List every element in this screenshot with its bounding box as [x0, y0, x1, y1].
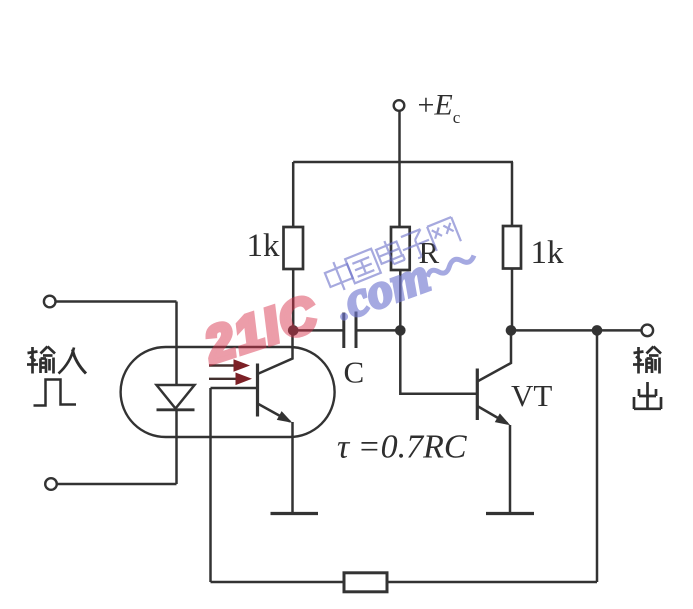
- node C (right 1k / VT collector): [506, 325, 517, 336]
- phototransistor base bar: [256, 364, 259, 417]
- supply terminal +Ec: [394, 100, 405, 227]
- label 输入 (input): [27, 347, 86, 374]
- wire bottom left: [211, 581, 345, 584]
- svg-text:VT: VT: [511, 378, 552, 413]
- wire VT base: [400, 330, 476, 393]
- output terminal: [642, 325, 654, 337]
- optocoupler package: [121, 347, 335, 437]
- svg-text:C: C: [344, 355, 365, 390]
- svg-text:τ =0.7RC: τ =0.7RC: [337, 429, 467, 466]
- wire LED cathode vertical: [175, 410, 178, 484]
- ground right: [486, 512, 534, 515]
- ground left: [271, 512, 319, 515]
- phototransistor collector: [258, 330, 293, 374]
- transistor VT: [477, 335, 512, 514]
- phototransistor base wire: [211, 387, 257, 390]
- resistor R: [391, 227, 410, 330]
- input terminal top: [44, 296, 56, 308]
- light arrow 1: [209, 359, 250, 372]
- resistor 1k right: [503, 162, 521, 330]
- input terminal bottom: [45, 478, 57, 490]
- wire top rail: [293, 161, 513, 164]
- wire input top: [56, 300, 177, 303]
- watermark com: [326, 229, 483, 332]
- phototransistor emitter: [258, 404, 295, 514]
- watermark 中国电子网: [322, 217, 461, 294]
- node A (left 1k / cap / opto collector): [288, 325, 299, 336]
- resistor 1k left: [284, 162, 304, 330]
- wire bottom right: [387, 581, 597, 584]
- wire feedback left vertical: [209, 388, 212, 582]
- wire LED anode vertical: [175, 302, 178, 385]
- LED diode: [157, 385, 195, 410]
- watermark 21IC: [197, 284, 325, 373]
- capacitor C: [293, 312, 400, 349]
- wire feedback right vertical: [596, 330, 599, 582]
- svg-text:1k: 1k: [531, 235, 565, 271]
- resistor feedback (bottom): [344, 573, 387, 592]
- label 输出 (output): [633, 347, 661, 410]
- node D (output / feedback): [592, 325, 603, 336]
- wire input bottom: [57, 483, 177, 486]
- node B (R / cap / VT base): [395, 325, 406, 336]
- light arrow 2: [209, 373, 252, 386]
- svg-text:1k: 1k: [247, 228, 281, 264]
- wire output: [511, 329, 642, 332]
- input pulse symbol: [34, 380, 77, 406]
